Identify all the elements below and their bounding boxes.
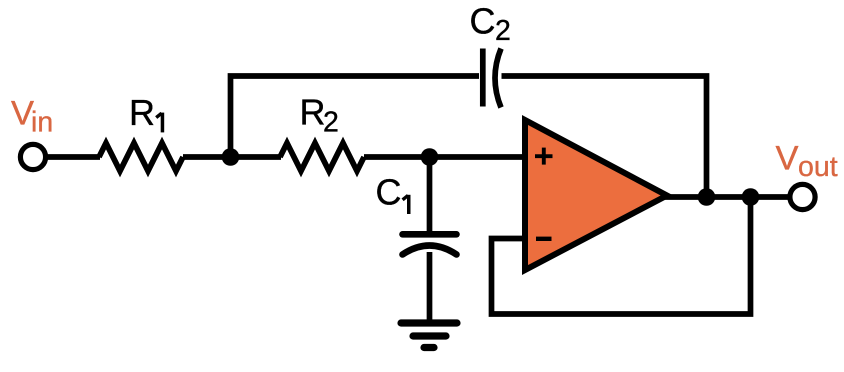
- op-amp - input marker: [536, 237, 552, 241]
- wire C1 to ground: [427, 252, 433, 322]
- feedback wire output to - input: [492, 197, 751, 314]
- svg-text:2: 2: [323, 107, 339, 139]
- terminal V_out: [790, 184, 815, 209]
- terminal V_in: [20, 144, 45, 169]
- resistor R1: [99, 143, 183, 171]
- wire input to R1: [46, 154, 100, 160]
- ground: [401, 323, 457, 348]
- svg-text:C: C: [376, 172, 402, 213]
- wire node B down to C1: [427, 157, 433, 232]
- capacitor C2: [483, 49, 501, 108]
- node C junction dot (feedback from C2): [698, 188, 716, 206]
- node B junction dot (C1 tap): [421, 148, 439, 166]
- wire op-amp output to terminal: [665, 194, 791, 200]
- svg-text:in: in: [31, 107, 53, 139]
- op-amp U1: [525, 120, 667, 270]
- svg-text:V: V: [776, 139, 799, 177]
- node A junction dot: [222, 148, 240, 166]
- resistor R2: [280, 143, 364, 171]
- svg-text:R: R: [300, 92, 326, 133]
- wire R2 to op-amp + input: [364, 154, 524, 160]
- wire R1 to R2: [183, 154, 281, 160]
- capacitor C1: [403, 234, 457, 254]
- svg-text:C: C: [470, 1, 496, 42]
- wire node A up and right to C2: [231, 76, 480, 157]
- op-amp + input marker: [535, 148, 553, 165]
- wire C2 to output node (top right corner): [502, 76, 707, 193]
- svg-text:out: out: [798, 151, 838, 183]
- svg-text:R: R: [129, 92, 155, 133]
- node D junction dot (feedback loop tap): [742, 188, 760, 206]
- svg-text:2: 2: [495, 15, 511, 47]
